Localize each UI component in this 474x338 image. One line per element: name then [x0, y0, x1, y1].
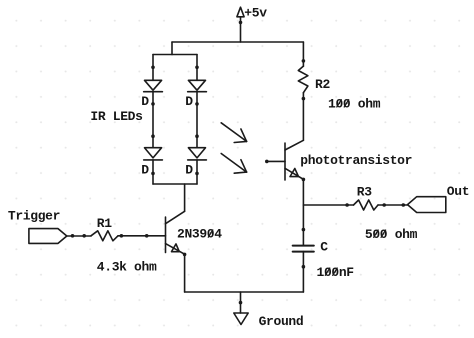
svg-text:D: D: [185, 162, 193, 177]
svg-text:Ground: Ground: [259, 314, 304, 329]
svg-text:C: C: [320, 240, 328, 255]
wire top rail: [172, 41, 303, 43]
diode D (LED col2 top): [188, 80, 207, 105]
svg-text:Out: Out: [447, 184, 469, 199]
svg-text:phototransistor: phototransistor: [300, 153, 412, 168]
wire R3 to Out: [378, 204, 408, 206]
node LED D4 anode: [195, 134, 199, 138]
node R3 tap: [302, 204, 304, 206]
label 100 ohm: [328, 97, 381, 112]
wire LED top bar: [153, 54, 197, 56]
node R3 left pin: [345, 203, 349, 207]
svg-text:R1: R1: [97, 216, 112, 231]
node Q1 base pin: [145, 234, 149, 238]
terminal Out: [408, 197, 446, 213]
svg-text:2N3904: 2N3904: [177, 227, 222, 242]
resistor R2: [298, 66, 308, 93]
diode D (LED col2 bottom): [188, 148, 207, 184]
svg-text:4.3k ohm: 4.3k ohm: [97, 260, 157, 275]
svg-text:100nF: 100nF: [317, 265, 355, 280]
wire cap bottom down: [302, 252, 304, 292]
node Out pin: [402, 203, 406, 207]
wire LED bottom bar: [153, 183, 197, 185]
wire between col1 diodes: [152, 104, 154, 148]
diode D (LED col1 top): [144, 80, 163, 105]
wire trigger to R1: [67, 235, 91, 237]
wire between col2 diodes: [196, 104, 198, 148]
wire R1 to Q1 base: [118, 235, 166, 237]
resistor R1: [91, 231, 118, 241]
svg-text:IR LEDs: IR LEDs: [90, 109, 143, 124]
node LED D2 anode: [195, 66, 199, 70]
svg-text:Trigger: Trigger: [8, 209, 60, 224]
wire R2 to Q2 collector: [302, 93, 304, 141]
transistor Q2 phototransistor: [265, 140, 305, 181]
svg-text:D: D: [141, 162, 149, 177]
svg-text:R2: R2: [315, 77, 330, 92]
capacitor C: [293, 246, 314, 252]
wire Q1 emitter down: [184, 254, 186, 292]
light arrow 2: [221, 154, 246, 174]
wire LED bar to Q1 collector: [184, 184, 186, 211]
node capacitor top: [302, 228, 306, 232]
diode D (LED col1 bottom): [144, 148, 163, 184]
wire emitter branch to R3: [303, 204, 353, 206]
wire LED column 1 upper pin: [152, 55, 154, 81]
svg-text:500 ohm: 500 ohm: [365, 227, 418, 242]
node R2 top: [302, 59, 306, 63]
svg-text:R3: R3: [357, 185, 372, 200]
light arrow 1: [221, 123, 246, 143]
node R3 right pin: [382, 203, 386, 207]
node cap bottom pin: [302, 265, 306, 269]
wire Q2 emitter down to cap: [302, 179, 304, 245]
svg-text:+5v: +5v: [244, 6, 267, 21]
wire bottom rail: [185, 291, 304, 293]
node LED D1 anode: [151, 66, 155, 70]
power +5v symbol: [237, 7, 244, 42]
resistor R3: [354, 200, 379, 210]
node R2 bottom: [302, 97, 306, 101]
svg-text:D: D: [141, 94, 149, 109]
label 500 ohm: [365, 227, 418, 242]
node trigger pin: [71, 234, 75, 238]
ground: [234, 292, 248, 325]
node LED D3 anode: [151, 134, 155, 138]
svg-text:100 ohm: 100 ohm: [328, 97, 381, 112]
wire LED column 2 upper pin: [196, 55, 198, 81]
node R1 left pin: [82, 234, 86, 238]
terminal Trigger: [29, 229, 67, 244]
node R1 right pin: [120, 234, 124, 238]
label 2N3904: [177, 227, 222, 242]
wire LED feed: [171, 42, 173, 55]
label 100nF: [317, 265, 355, 280]
wire R2 top pin: [302, 42, 304, 66]
svg-text:D: D: [185, 94, 193, 109]
transistor Q1 2N3904: [166, 211, 187, 256]
